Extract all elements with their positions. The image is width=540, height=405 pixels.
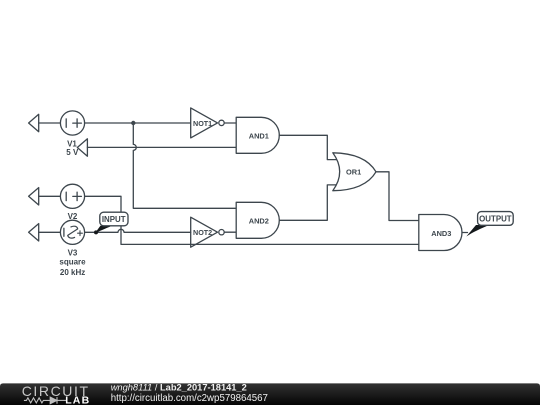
- OUTPUT flag label: [478, 212, 514, 226]
- wire OR1 to AND3 top input: [376, 172, 419, 221]
- wire T1 to V1: [39, 122, 61, 124]
- OUTPUT flag tail: [466, 225, 489, 237]
- wire NOT2 to AND2: [225, 231, 236, 233]
- voltage source V3 square: [60, 220, 84, 244]
- svg-text:NOT1: NOT1: [193, 119, 212, 128]
- NOT gate NOT1: [191, 108, 218, 138]
- INPUT flag label: [100, 212, 128, 226]
- wire junction down to AND2 with hop: [133, 123, 236, 208]
- AND gate AND3: [419, 215, 462, 251]
- svg-text:square: square: [59, 257, 86, 266]
- svg-text:http://circuitlab.com/c2wp5798: http://circuitlab.com/c2wp579864567: [111, 393, 268, 404]
- wire T2 to AND1 lower input: [87, 146, 236, 148]
- wire AND2 to OR1 bottom input: [279, 185, 340, 220]
- svg-text:AND3: AND3: [431, 229, 451, 238]
- OR gate OR1: [333, 153, 376, 191]
- svg-text:AND1: AND1: [249, 132, 269, 141]
- svg-text:OR1: OR1: [346, 168, 361, 177]
- svg-text:V3: V3: [68, 249, 78, 258]
- svg-text:NOT2: NOT2: [193, 228, 212, 237]
- net flag terminal T1: [29, 114, 39, 131]
- svg-text:AND2: AND2: [249, 217, 269, 226]
- svg-text:LAB: LAB: [65, 395, 90, 405]
- net flag terminal T4: [29, 224, 39, 241]
- svg-text:5 V: 5 V: [66, 148, 79, 157]
- svg-text:wngh8111 / Lab2_2017-18141_2: wngh8111 / Lab2_2017-18141_2: [111, 383, 247, 393]
- wire V2 down and long bottom wire to AND3: [85, 196, 419, 244]
- voltage source V2: [60, 184, 84, 208]
- wire AND3 output: [462, 232, 468, 234]
- wire T3 to V2: [39, 195, 61, 197]
- NOT gate NOT2: [191, 217, 218, 247]
- net flag terminal T3: [29, 188, 39, 205]
- INPUT flag tail: [95, 226, 113, 234]
- AND gate AND2: [236, 202, 279, 238]
- svg-text:OUTPUT: OUTPUT: [479, 215, 512, 224]
- wire T4 to V3: [39, 231, 61, 233]
- wire V3 to NOT2 with hop: [85, 229, 191, 232]
- net flag terminal T2: [77, 139, 87, 156]
- logo resistor zigzag and diode: [24, 397, 66, 404]
- svg-text:V2: V2: [68, 212, 78, 221]
- svg-text:20 kHz: 20 kHz: [60, 268, 85, 277]
- wire NOT1 to AND1: [225, 122, 236, 124]
- node junction A: [131, 121, 135, 125]
- wire AND1 to OR1 top input: [279, 135, 340, 159]
- svg-text:INPUT: INPUT: [102, 215, 126, 224]
- wire V1 to NOT1: [85, 122, 191, 124]
- voltage source V1: [60, 111, 84, 135]
- AND gate AND1: [236, 117, 279, 153]
